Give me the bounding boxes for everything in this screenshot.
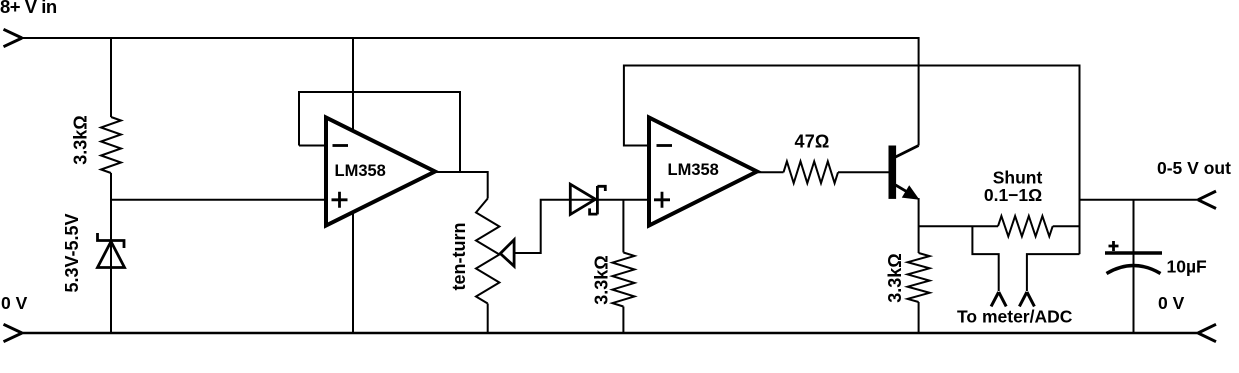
op-amp U2 plus sign — [654, 192, 670, 208]
svg-text:LM358: LM358 — [335, 162, 386, 180]
op-amp U2 triangle — [649, 118, 757, 226]
svg-text:0.1−1Ω: 0.1−1Ω — [984, 185, 1042, 205]
wire node B down to resistor R2 — [622, 200, 624, 253]
op-amp U1 plus sign — [332, 192, 348, 208]
wire R5 to bottom rail — [918, 302, 920, 333]
wire shunt right to node F — [1053, 225, 1080, 227]
shunt resistor RS — [998, 216, 1053, 236]
svg-text:0 V: 0 V — [1158, 293, 1185, 313]
svg-text:3.3kΩ: 3.3kΩ — [71, 115, 91, 164]
svg-text:0 V: 0 V — [1, 293, 28, 313]
svg-text:ten-turn: ten-turn — [449, 223, 469, 291]
wire R4 to transistor Q1 base — [838, 171, 889, 173]
wire bottom rail 0V — [22, 332, 1198, 334]
wire U2 output to resistor R4 — [757, 171, 784, 173]
wire capacitor to bottom rail — [1133, 253, 1135, 333]
svg-text:5.3V-5.5V: 5.3V-5.5V — [62, 213, 82, 292]
wire Q1 emitter down to node E — [918, 198, 920, 253]
wire R2 to bottom rail — [622, 307, 624, 334]
svg-text:3.3kΩ: 3.3kΩ — [592, 255, 612, 304]
wire output line — [1080, 199, 1199, 201]
wire U1 feedback loop — [299, 92, 460, 172]
input terminal arrow bottom left — [4, 324, 23, 341]
resistor R1 3.3k — [101, 117, 121, 173]
wire U1 minus input — [299, 145, 326, 147]
wire U1 V+ power pin to top rail — [352, 38, 354, 131]
wire left sense tap — [972, 226, 998, 291]
wire R1 to node A — [110, 173, 112, 333]
wire from top rail down to resistor R1 — [110, 38, 112, 117]
wire U1 V- power pin to bottom rail — [352, 212, 354, 333]
input terminal arrow top left — [4, 29, 23, 46]
svg-text:LM358: LM358 — [668, 161, 719, 179]
wire U1 output — [435, 172, 488, 199]
svg-text:8+ V in: 8+ V in — [0, 0, 57, 17]
bottom right terminal arrow — [1198, 324, 1216, 341]
op-amp U2 minus sign — [657, 144, 673, 147]
wire U2 minus input feedback to shunt right — [624, 66, 1080, 255]
capacitor C1 curved plate — [1107, 266, 1161, 274]
svg-text:10µF: 10µF — [1167, 257, 1208, 277]
wire right sense tap — [1027, 254, 1080, 291]
schottky diode D2 — [570, 184, 605, 214]
wire schottky cathode to U2 plus input — [597, 199, 649, 201]
resistor R5 3.3k emitter — [908, 253, 930, 302]
resistor R2 3.3k — [612, 253, 634, 307]
transistor Q1 collector — [896, 146, 919, 158]
potentiometer RV1 wiper arrow — [500, 240, 514, 267]
transistor Q1 base bar — [889, 146, 897, 199]
left sense terminal arrow — [991, 292, 1006, 306]
wire output down to capacitor C1 — [1133, 200, 1135, 252]
op-amp U1 minus sign — [333, 144, 349, 147]
capacitor C1 plus plate — [1105, 251, 1162, 255]
wire node A to op-amp U1 plus input — [111, 199, 326, 201]
wire wiper to schottky anode — [514, 200, 597, 253]
wire node E to shunt left — [919, 225, 998, 227]
potentiometer RV1 ten-turn body — [476, 199, 499, 304]
wire top rail V+ — [22, 38, 919, 146]
resistor R4 47 ohm — [784, 161, 839, 183]
svg-text:0-5 V out: 0-5 V out — [1157, 158, 1231, 178]
op-amp U1 triangle — [326, 118, 435, 226]
svg-text:3.3kΩ: 3.3kΩ — [885, 253, 905, 302]
wire pot bottom to rail — [487, 304, 489, 334]
zener diode D1 — [98, 233, 125, 268]
output terminal arrow — [1198, 191, 1216, 208]
transistor Q1 emitter with arrow — [896, 185, 911, 194]
svg-text:To meter/ADC: To meter/ADC — [957, 307, 1073, 327]
svg-text:47Ω: 47Ω — [795, 132, 830, 152]
capacitor C1 plus sign — [1109, 241, 1119, 251]
right sense terminal arrow — [1019, 292, 1034, 306]
